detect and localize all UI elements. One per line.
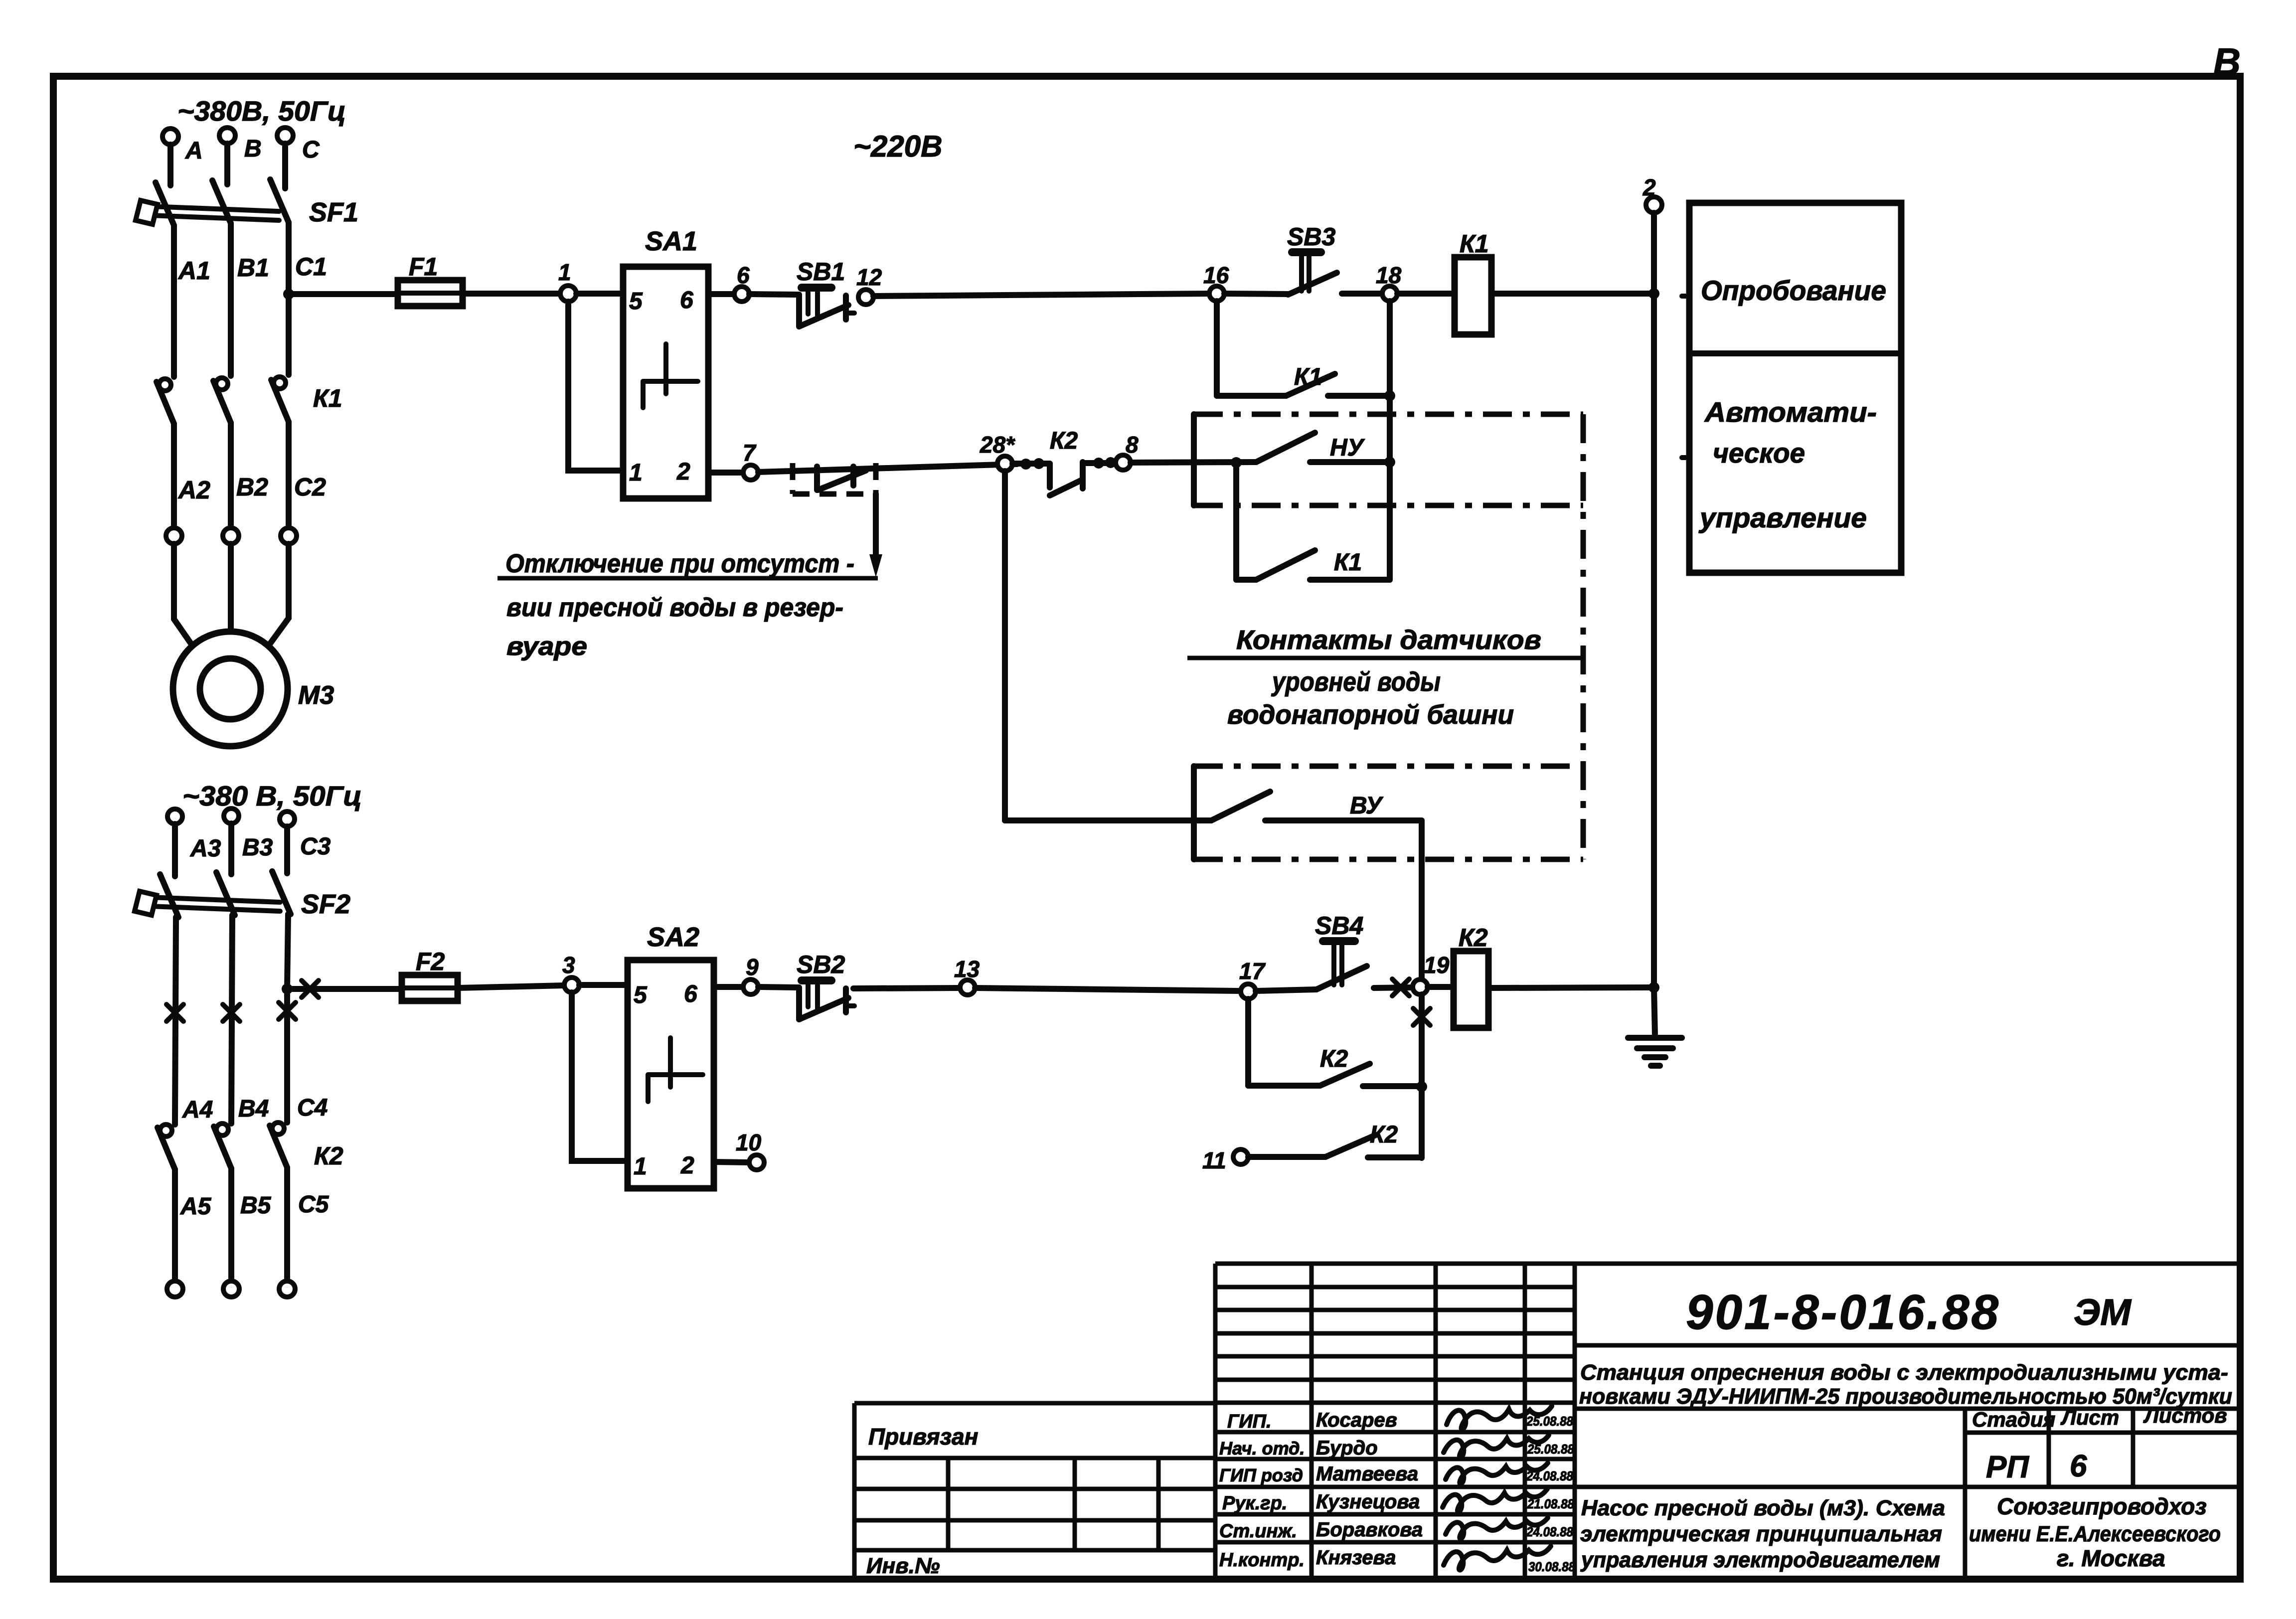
svg-text:Стадия: Стадия — [1972, 1408, 2055, 1431]
svg-text:3: 3 — [562, 952, 575, 978]
svg-text:901-8-016.88: 901-8-016.88 — [1686, 1285, 2000, 1339]
svg-text:С1: С1 — [295, 253, 327, 281]
svg-text:SF2: SF2 — [301, 889, 350, 919]
node B terminal — [219, 128, 235, 144]
svg-text:~380В, 50Гц: ~380В, 50Гц — [177, 95, 346, 127]
relay coil K2 — [1454, 951, 1488, 1028]
connector contacts and K2 break contact — [1012, 428, 1116, 495]
wire node1 down to SA1 pin1 — [568, 302, 623, 471]
svg-text:6: 6 — [2070, 1449, 2087, 1483]
svg-text:6: 6 — [680, 287, 693, 314]
note underline — [497, 576, 878, 581]
lower branch end terminals — [167, 1281, 183, 1297]
removal cross marks on phases — [166, 980, 319, 1021]
wire A5 — [172, 1169, 178, 1281]
pushbutton SB3 — [1287, 223, 1337, 295]
svg-text:вии пресной воды в резер-: вии пресной воды в резер- — [506, 593, 843, 622]
wire node13 to node17 — [975, 988, 1241, 991]
svg-text:2: 2 — [680, 1152, 694, 1179]
wire F2 to node 3 — [458, 985, 564, 988]
svg-text:НУ: НУ — [1330, 435, 1365, 461]
node A terminal — [163, 129, 178, 145]
svg-text:К2: К2 — [1050, 428, 1078, 454]
wire node9 to SB2 — [758, 987, 798, 987]
wire K2 coil to right bus — [1488, 987, 1654, 988]
svg-text:К2: К2 — [1320, 1046, 1348, 1072]
svg-text:2: 2 — [1642, 174, 1656, 200]
svg-text:9: 9 — [746, 954, 759, 980]
node 8 — [1116, 455, 1131, 470]
wire B1 — [228, 223, 234, 376]
svg-text:электрическая принципиальная: электрическая принципиальная — [1580, 1522, 1942, 1546]
switch SA1 — [623, 226, 708, 498]
svg-text:Князева: Князева — [1316, 1547, 1396, 1569]
node 2 — [1646, 197, 1662, 213]
node 6 — [734, 287, 749, 302]
contactor K1 main contacts — [157, 377, 342, 424]
svg-text:С: С — [302, 137, 320, 163]
svg-text:18: 18 — [1376, 262, 1402, 288]
cross mark below node 19 — [1413, 1008, 1430, 1025]
node 28 — [997, 456, 1012, 471]
wire arrow to note — [873, 494, 879, 558]
wire A2 — [171, 424, 177, 528]
contact VU high-level sensor — [1005, 792, 1422, 820]
svg-text:В: В — [2213, 41, 2241, 83]
contact NU low-level sensor — [1131, 433, 1390, 468]
node B3 terminal — [224, 809, 239, 823]
svg-text:1: 1 — [558, 259, 571, 285]
legend box — [1682, 203, 1901, 573]
node 1 — [560, 286, 576, 302]
wire node17 to SB4 — [1256, 989, 1316, 991]
wire SA1 pin2 to node 7 — [708, 470, 743, 476]
svg-text:г. Москва: г. Москва — [2057, 1545, 2165, 1571]
breaker SF2 — [135, 871, 350, 919]
svg-text:вуаре: вуаре — [506, 632, 587, 661]
svg-text:К2: К2 — [314, 1142, 343, 1170]
float switch dashed box — [793, 463, 876, 494]
wire node6 to SB1 — [749, 294, 798, 295]
svg-text:Косарев: Косарев — [1316, 1409, 1397, 1431]
relay coil K1 — [1455, 257, 1491, 334]
svg-text:Бурдо: Бурдо — [1316, 1437, 1378, 1459]
signatures — [1443, 1406, 1552, 1570]
node 3 — [564, 977, 579, 992]
node 19 — [1413, 979, 1428, 994]
svg-text:ГИП розд: ГИП розд — [1219, 1465, 1303, 1485]
svg-text:К1: К1 — [1294, 364, 1322, 390]
svg-text:Отключение при отсутст -: Отключение при отсутст - — [505, 549, 854, 578]
svg-text:водонапорной башни: водонапорной башни — [1227, 700, 1514, 730]
svg-text:5: 5 — [629, 288, 643, 315]
wire B4 — [231, 915, 232, 1124]
svg-text:1: 1 — [634, 1153, 647, 1180]
node C terminal — [277, 128, 293, 144]
svg-text:Боравкова: Боравкова — [1316, 1519, 1423, 1541]
wire node3 to SA2 pin5 — [579, 982, 628, 988]
svg-text:F2: F2 — [416, 948, 445, 975]
svg-text:А1: А1 — [177, 257, 210, 285]
svg-text:С3: С3 — [300, 833, 331, 860]
svg-text:SB4: SB4 — [1315, 912, 1363, 940]
wire phase A stub — [167, 145, 173, 185]
svg-text:~380 В, 50Гц: ~380 В, 50Гц — [182, 780, 362, 811]
node 10 — [749, 1155, 764, 1170]
wire node19 to K2 coil — [1428, 984, 1454, 990]
wire A1 — [171, 225, 177, 377]
svg-text:1: 1 — [629, 460, 643, 486]
contactor K2 main contacts — [158, 1123, 343, 1170]
ground — [1628, 987, 1682, 1066]
svg-text:6: 6 — [684, 981, 697, 1007]
svg-text:ГИП.: ГИП. — [1227, 1411, 1272, 1432]
svg-text:Автомати-: Автомати- — [1704, 396, 1877, 428]
contact K1 sensor branch — [1236, 468, 1390, 580]
wire node28 down — [1002, 471, 1008, 820]
svg-text:К2: К2 — [1370, 1122, 1398, 1148]
wire phase B stub — [224, 144, 230, 184]
contact K1 self-hold — [1217, 301, 1390, 396]
junction C4 — [282, 983, 293, 994]
wire VU down to node 19 — [1419, 820, 1425, 979]
svg-text:Насос пресной воды (м3). Схема: Насос пресной воды (м3). Схема — [1581, 1496, 1945, 1520]
node 17 — [1241, 984, 1256, 999]
switch SA2 — [628, 922, 714, 1188]
svg-text:ВУ: ВУ — [1350, 793, 1384, 819]
svg-text:В5: В5 — [240, 1192, 272, 1219]
wire node19 down — [1419, 994, 1425, 1087]
node 9 — [743, 979, 758, 994]
pushbutton SB1 — [797, 258, 854, 326]
svg-text:К1: К1 — [1334, 549, 1362, 576]
svg-text:С4: С4 — [297, 1095, 328, 1121]
svg-text:6: 6 — [737, 262, 750, 288]
pushbutton SB2 — [797, 951, 854, 1019]
wire node18 to K1 coil — [1397, 291, 1455, 297]
svg-text:К2: К2 — [1459, 924, 1488, 952]
svg-text:Кузнецова: Кузнецова — [1316, 1491, 1420, 1513]
svg-text:SA2: SA2 — [647, 922, 699, 952]
wire B5 — [228, 1168, 234, 1281]
svg-text:Инв.№: Инв.№ — [866, 1554, 940, 1578]
svg-text:Ст.инж.: Ст.инж. — [1219, 1521, 1297, 1542]
fuse F1 — [398, 253, 463, 306]
svg-text:Лист: Лист — [2060, 1406, 2119, 1429]
svg-text:А2: А2 — [177, 476, 210, 504]
wire phase C stub — [282, 144, 288, 188]
svg-text:управления электродвигателем: управления электродвигателем — [1580, 1548, 1940, 1572]
node A3 terminal — [167, 809, 182, 824]
wire B3 stub — [228, 823, 234, 874]
node 18 — [1382, 286, 1397, 301]
svg-text:С5: С5 — [298, 1191, 329, 1218]
svg-text:12: 12 — [856, 264, 882, 290]
wire K1 coil to right bus — [1491, 291, 1654, 297]
motor M3 — [173, 632, 288, 746]
svg-text:К1: К1 — [313, 384, 342, 412]
wire SA2 pin6 to node 9 — [714, 984, 743, 990]
svg-text:8: 8 — [1126, 432, 1139, 458]
svg-text:16: 16 — [1203, 262, 1229, 288]
node 16 — [1209, 286, 1224, 301]
svg-text:РП: РП — [1986, 1450, 2029, 1484]
svg-text:В4: В4 — [238, 1096, 269, 1122]
wire fuse to node 1 — [463, 291, 560, 297]
fuse F2 — [402, 948, 458, 1001]
contact K2 interlock — [1248, 1122, 1422, 1157]
svg-text:11: 11 — [1202, 1147, 1226, 1173]
wire main row to fuse — [289, 291, 398, 297]
svg-text:А4: А4 — [182, 1097, 213, 1123]
contact K2 self-hold — [1248, 999, 1422, 1086]
wire node12 to node16 — [873, 294, 1209, 296]
svg-text:SA1: SA1 — [645, 226, 697, 256]
node 12 — [858, 290, 873, 305]
svg-text:Рук.гр.: Рук.гр. — [1222, 1493, 1287, 1514]
svg-text:Н.контр.: Н.контр. — [1219, 1550, 1305, 1571]
svg-text:уровней воды: уровней воды — [1271, 667, 1441, 697]
wire lower main row — [287, 986, 402, 992]
cross mark before node 19 — [1392, 979, 1409, 996]
svg-text:5: 5 — [634, 982, 648, 1008]
svg-text:SB1: SB1 — [797, 258, 845, 286]
svg-text:ЭМ: ЭМ — [2074, 1292, 2132, 1333]
svg-text:30.08.88: 30.08.88 — [1528, 1559, 1575, 1574]
wire A4 — [175, 917, 176, 1125]
svg-text:25.08.88: 25.08.88 — [1526, 1414, 1573, 1429]
svg-text:А: А — [185, 138, 203, 164]
wire node7 to connector row — [758, 464, 1017, 472]
svg-text:Матвеева: Матвеева — [1316, 1463, 1418, 1485]
svg-text:17: 17 — [1239, 958, 1266, 984]
svg-text:А3: А3 — [190, 835, 221, 862]
motor lead terminals — [166, 528, 182, 544]
wire node1 to SA1 pin5 — [576, 291, 623, 297]
svg-text:М3: М3 — [298, 681, 334, 710]
svg-text:~220В: ~220В — [853, 130, 942, 163]
wire SB4 to node 19 — [1374, 987, 1413, 988]
node 13 — [960, 980, 975, 995]
sensor box 1 dash-dot — [1194, 414, 1583, 859]
pривязан table — [854, 1403, 1215, 1578]
svg-text:Привязан: Привязан — [868, 1424, 978, 1450]
sensor box 2 dash-dot — [1194, 766, 1583, 859]
pushbutton SB4 — [1315, 912, 1367, 989]
svg-text:SF1: SF1 — [309, 197, 358, 227]
svg-text:F1: F1 — [409, 253, 438, 281]
wire node18 down — [1387, 301, 1393, 580]
wire A3 stub — [172, 824, 178, 876]
wire C5 — [284, 1167, 290, 1281]
svg-text:Опробование: Опробование — [1701, 275, 1886, 306]
svg-text:SB2: SB2 — [797, 951, 845, 978]
svg-text:В1: В1 — [237, 254, 269, 282]
wire SA2 pin2 to node 10 — [714, 1162, 749, 1162]
svg-text:2: 2 — [676, 459, 690, 485]
node 11 — [1233, 1149, 1248, 1164]
svg-text:Контакты датчиков: Контакты датчиков — [1236, 625, 1541, 655]
svg-text:SB3: SB3 — [1287, 223, 1335, 251]
breaker SF1 — [136, 179, 358, 227]
svg-text:В: В — [244, 136, 262, 162]
wire C2 — [286, 422, 292, 528]
svg-text:новками ЭДУ-НИИПМ-25 производи: новками ЭДУ-НИИПМ-25 производительностью… — [1579, 1384, 2232, 1409]
svg-text:Союзгипроводхоз: Союзгипроводхоз — [1997, 1493, 2207, 1519]
svg-text:имени Е.Е.Алексеевского: имени Е.Е.Алексеевского — [1969, 1522, 2221, 1546]
svg-text:ческое: ческое — [1713, 437, 1805, 469]
wire node3 down to SA2 pin1 — [572, 992, 628, 1161]
wire SB3 to node 18 — [1342, 291, 1382, 297]
wire node16 to SB3 — [1224, 294, 1288, 294]
wire C3 stub — [284, 826, 290, 873]
node C3 terminal — [280, 811, 295, 826]
svg-text:А5: А5 — [180, 1193, 212, 1220]
svg-text:С2: С2 — [294, 473, 326, 501]
svg-text:К1: К1 — [1460, 230, 1489, 258]
svg-text:Станция опреснения воды с элек: Станция опреснения воды с электродиализн… — [1580, 1360, 2228, 1385]
title block — [1215, 1264, 2240, 1576]
wire C1 — [286, 222, 292, 294]
svg-text:7: 7 — [743, 440, 757, 466]
svg-text:10: 10 — [736, 1130, 762, 1155]
node C1 junction — [283, 289, 294, 300]
svg-text:В3: В3 — [242, 834, 273, 861]
svg-text:Листов: Листов — [2143, 1404, 2227, 1427]
svg-text:В2: В2 — [236, 473, 268, 501]
svg-text:управление: управление — [1698, 502, 1867, 533]
wire right bus vertical — [1651, 213, 1657, 987]
wire B2 — [228, 423, 234, 528]
wires to motor — [174, 544, 195, 650]
wire C4 — [287, 914, 288, 989]
svg-text:13: 13 — [954, 956, 980, 982]
svg-text:28*: 28* — [980, 432, 1015, 458]
wire SA1 pin6 to node 6 — [708, 291, 734, 297]
svg-text:Нач. отд.: Нач. отд. — [1219, 1438, 1305, 1458]
node 7 — [743, 465, 758, 480]
svg-text:19: 19 — [1424, 952, 1450, 978]
wire SB2 to node 13 — [853, 988, 960, 988]
